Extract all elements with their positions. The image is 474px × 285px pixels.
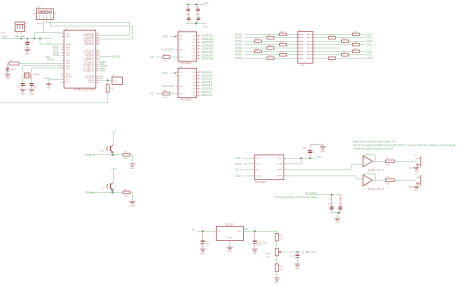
svg-text:FE06: FE06 — [37, 24, 43, 26]
svg-text:AGND: AGND — [45, 77, 52, 80]
svg-text:OE: OE — [150, 92, 154, 95]
svg-text:GND: GND — [5, 78, 10, 80]
wire 3.3V rail — [1, 38, 53, 40]
wire SCK — [242, 157, 253, 159]
wire R6 to ground — [130, 192, 132, 201]
svg-text:LDAC: LDAC — [256, 175, 262, 178]
svg-text:GND: GND — [200, 253, 205, 255]
svg-text:You hear something to before t: You hear something to before the voltage — [274, 196, 318, 199]
wire CS — [240, 169, 253, 171]
ground below C10 — [200, 249, 206, 255]
wire C7 to ground — [310, 144, 323, 146]
svg-text:the pin 4 needs is pulled up t: the pin 4 needs is pulled up to a/c 5V (… — [353, 143, 456, 147]
node junction output — [254, 230, 256, 232]
wire reset to left edge — [0, 94, 108, 103]
ground below regulator — [227, 247, 233, 253]
wire MOSI — [243, 163, 253, 165]
wire row8b — [274, 57, 296, 59]
ground stub below rail — [195, 23, 197, 25]
ATmega left pin names (inside) — [66, 33, 73, 84]
wire AGND from IC — [49, 80, 62, 84]
wire 5V audio net — [305, 194, 342, 196]
svg-text:16P: 16P — [301, 65, 305, 67]
svg-text:GND: GND — [414, 190, 419, 192]
resistor R5 — [123, 152, 130, 160]
svg-text:16V: 16V — [263, 242, 267, 244]
svg-text:100n: 100n — [185, 14, 191, 16]
node junction VDD b — [309, 157, 311, 159]
wire out row6 — [315, 50, 352, 52]
wire out row4 — [315, 44, 352, 46]
capacitor C9 — [338, 195, 344, 213]
svg-text:SCK: SCK — [235, 157, 240, 160]
resistor R16 — [280, 52, 287, 56]
wire U2B feedback loop — [363, 174, 375, 180]
wire R5 to ground — [130, 155, 132, 164]
svg-text:CLK/LATCH: CLK/LATCH — [161, 85, 174, 88]
svg-text:GND: GND — [66, 36, 71, 38]
svg-text:A different buffer should be u: A different buffer should be used? — [353, 146, 394, 150]
svg-text:GND: GND — [227, 251, 232, 253]
ground below LED1 — [5, 74, 11, 80]
svg-text:GND: GND — [20, 93, 25, 95]
svg-text:GND GND: GND GND — [15, 36, 26, 38]
capacitor C2 — [16, 83, 24, 89]
node junction on rail — [39, 38, 41, 40]
node junction reset — [107, 79, 109, 81]
ground below C12 — [294, 264, 300, 270]
svg-text:SDI: SDI — [256, 164, 260, 166]
node junction on rail — [33, 38, 35, 40]
svg-text:RST: RST — [114, 81, 119, 83]
ground below divider — [274, 278, 280, 284]
svg-text:ADC7: ADC7 — [88, 81, 94, 84]
svg-text:GND: GND — [46, 88, 51, 90]
wire VDD row — [286, 157, 316, 159]
svg-text:VCC: VCC — [204, 2, 209, 5]
wire out row7b + label — [349, 54, 373, 57]
ground below R5 — [129, 164, 135, 170]
SECTION: power supply bottom-center — [192, 223, 317, 284]
resistor R3 at IC2 OE — [150, 54, 176, 63]
svg-text:GND: GND — [203, 26, 208, 28]
op-amp U2A buffer — [363, 154, 385, 172]
svg-text:100n: 100n — [195, 14, 201, 16]
svg-text:74HC595N: 74HC595N — [179, 62, 191, 65]
svg-text:LEDCOL8: LEDCOL8 — [201, 94, 213, 97]
resistor R13 — [280, 42, 287, 46]
wire joining C8 C9 to ground — [332, 212, 341, 214]
wire regulator ground pin — [229, 241, 231, 247]
capacitor C6 — [195, 4, 201, 17]
op-amp U2B buffer — [363, 173, 385, 191]
resistor R7 — [385, 158, 394, 166]
IC3 right pins with LED net labels — [197, 71, 213, 97]
connector SV1 (ISP header) — [34, 7, 56, 20]
resistor R14 — [267, 45, 274, 49]
IC2 left pins — [176, 36, 178, 57]
svg-text:GND: GND — [274, 282, 279, 284]
wire out row1 — [315, 33, 352, 35]
svg-text:A_REF_OUT: A_REF_OUT — [302, 251, 317, 254]
node junction wiper — [297, 251, 299, 253]
resistor R25 — [342, 52, 349, 56]
svg-text:MIDI_IN: MIDI_IN — [111, 56, 120, 59]
svg-text:OUTA: OUTA — [276, 163, 282, 166]
ATmega right pins — [96, 34, 100, 83]
wire row7b — [287, 54, 296, 56]
wire out row6b + label — [360, 50, 373, 53]
SECTION: DAC and buffers center-right — [235, 140, 456, 225]
wire row4b — [287, 44, 296, 46]
wire ISP MOSI to rail — [34, 19, 43, 38]
connector JP1 inner pin leads — [300, 34, 310, 58]
svg-text:PD6(AIN0): PD6(AIN0) — [84, 58, 94, 61]
resistor R6 — [123, 189, 130, 197]
svg-text:VCC: VCC — [111, 168, 116, 171]
svg-text:CS: CS — [235, 169, 239, 172]
resistor R17 — [267, 55, 274, 59]
svg-text:MOSI2: MOSI2 — [47, 58, 55, 61]
resistor R11 (divider bottom) — [275, 264, 284, 272]
svg-text:LDAC: LDAC — [235, 175, 242, 178]
svg-text:PWM_A: PWM_A — [85, 154, 94, 157]
svg-text:100n: 100n — [24, 47, 30, 49]
wire to ground divider — [276, 271, 278, 277]
svg-text:100n: 100n — [302, 148, 308, 150]
svg-text:DATA: DATA — [162, 72, 168, 75]
wire PWM A — [90, 154, 123, 156]
svg-text:COL8: COL8 — [366, 57, 373, 60]
wire LDAC — [244, 175, 253, 177]
wire out row1b + label — [360, 33, 373, 36]
transistor Q4 — [101, 182, 114, 192]
op-amp IC4 DAC box — [255, 155, 284, 184]
svg-text:GND: GND — [29, 93, 34, 95]
svg-text:LEDROW8: LEDROW8 — [201, 58, 213, 61]
wire AVDD joins VDD — [286, 158, 301, 164]
wire row2b — [274, 37, 296, 39]
resistor R4 at IC3 OE — [150, 90, 176, 99]
capacitor C8 — [328, 195, 334, 213]
ground at J3 — [414, 186, 420, 192]
capacitor C7b — [197, 18, 201, 24]
wire out row3 — [315, 40, 341, 42]
node junction VDD a — [300, 157, 302, 159]
svg-text:100n: 100n — [338, 204, 344, 206]
wire out row4b + label — [360, 44, 373, 47]
svg-text:5V_AUDIO: 5V_AUDIO — [305, 192, 317, 195]
capacitor C11 (output electrolytic) — [253, 231, 267, 248]
wire row2 — [245, 37, 268, 39]
ground at C7 — [320, 147, 326, 153]
wire out row8b + label — [336, 57, 373, 60]
resistor R10 — [280, 31, 287, 35]
wire divider bottom — [276, 256, 278, 264]
wire row7 — [245, 54, 280, 56]
switch S1 box — [112, 75, 123, 84]
resistor R22 — [342, 38, 349, 42]
wire out row7 — [315, 54, 341, 56]
resistor R15 — [255, 48, 262, 52]
svg-text:AGND: AGND — [66, 76, 73, 79]
capacitor C1 — [24, 39, 33, 49]
node junction 5V audio — [331, 194, 333, 196]
connector J3 audio jack B — [409, 174, 421, 189]
voltage regulator IC5 78L05 box — [216, 223, 243, 240]
wire rail to AVCC pin — [40, 39, 61, 45]
svg-text:LED1: LED1 — [11, 69, 17, 71]
wire ISP MISO to IC right — [47, 19, 130, 35]
svg-text:PWM_B: PWM_B — [85, 191, 94, 194]
crystal Q2 — [23, 65, 62, 82]
resistor R24 — [353, 48, 360, 52]
svg-text:AUDIO_OUT_B: AUDIO_OUT_B — [368, 188, 385, 191]
wire DAC OUTA to buffer 1 — [286, 164, 363, 170]
capacitor C5 — [187, 18, 191, 24]
connector JP1 box — [298, 30, 313, 63]
capacitor C4 — [185, 4, 191, 17]
svg-text:+3V3: +3V3 — [1, 36, 7, 39]
svg-text:100n: 100n — [328, 204, 334, 206]
svg-text:GND: GND — [130, 206, 135, 208]
node junction on rail — [20, 38, 22, 40]
wire 5V output — [243, 230, 276, 232]
svg-text:PC3(ADC3): PC3(ADC3) — [83, 70, 94, 73]
svg-text:SH: SH — [180, 86, 183, 88]
wire row4 — [245, 44, 280, 46]
ground below C2 — [20, 89, 26, 95]
op-amp IC2 74HC595 box — [178, 30, 196, 65]
SECTION: resistor bus / connector top-right — [235, 30, 373, 67]
wire row5 — [245, 47, 268, 49]
node junction top rail a — [187, 4, 189, 6]
resistor R9 (divider top) — [275, 233, 284, 241]
SECTION: transistor drivers bottom-left — [85, 130, 135, 207]
svg-text:SCK: SCK — [256, 158, 261, 160]
wire row3b — [262, 40, 296, 42]
wire wiper output — [282, 251, 302, 253]
node junction bottom rail — [195, 22, 197, 24]
ATmega left pins — [61, 34, 64, 83]
svg-text:AUDIO_OUT_A: AUDIO_OUT_A — [368, 169, 385, 172]
connector J2 audio jack A — [409, 155, 421, 170]
wire divider middle — [276, 241, 278, 248]
capacitor C10 (input electrolytic) — [201, 231, 211, 248]
IC2 right pins with LED net labels — [197, 34, 214, 60]
ground below R6 — [129, 202, 135, 208]
svg-text:16MHz: 16MHz — [33, 74, 40, 76]
node junction below caps — [338, 212, 340, 214]
svg-text:What this is a super slick buf: What this is a super slick buffer, eh? — [353, 140, 396, 144]
wire to divider — [276, 231, 278, 233]
wire row3 — [245, 40, 255, 42]
connector JP1 right pins — [311, 34, 315, 58]
svg-text:AVCC: AVCC — [66, 73, 72, 76]
svg-text:MCP4922: MCP4922 — [255, 181, 266, 184]
ground below C8 C9 — [334, 218, 340, 224]
svg-text:VCC: VCC — [317, 156, 322, 159]
ground below C1 — [24, 50, 30, 56]
wire out row2b + label — [336, 37, 373, 40]
op-amp IC3 74HC595 box (second) — [178, 67, 196, 102]
op-amp U1 ATmega168 IC box — [64, 28, 96, 91]
wire DAC OUTB to buffer 2 — [286, 176, 363, 179]
wire row6 — [245, 50, 255, 52]
svg-text:GND: GND — [335, 222, 340, 224]
resistor R26 — [329, 57, 336, 63]
node junction Q3 emitter — [112, 154, 114, 156]
node junction input — [202, 230, 204, 232]
node junction on rail — [27, 38, 29, 40]
svg-text:VCC: VCC — [111, 130, 116, 133]
ground at J2 — [414, 167, 420, 173]
svg-text:78L05Z: 78L05Z — [225, 223, 234, 226]
resonator Q1 — [15, 22, 29, 34]
resistor R12 — [255, 38, 262, 42]
svg-text:OUT: OUT — [237, 231, 242, 233]
svg-text:OUTB: OUTB — [276, 170, 282, 172]
wire row8 — [245, 57, 268, 59]
wire 9V input — [197, 230, 217, 232]
ATmega right pin names (inside) — [83, 33, 95, 84]
wire PWM B — [90, 191, 123, 193]
svg-text:MOSI: MOSI — [235, 163, 241, 166]
svg-text:GND: GND — [295, 268, 300, 270]
svg-text:DATA: DATA — [162, 35, 168, 38]
wire supply to Q4 — [112, 171, 114, 183]
resistor R21 — [329, 35, 336, 39]
wire DATA to IC3 pin — [171, 72, 175, 74]
node junction Q4 emitter — [112, 191, 114, 193]
svg-text:COL4: COL4 — [366, 44, 373, 47]
resistor R20 — [353, 31, 360, 35]
svg-text:SH: SH — [180, 50, 183, 52]
SECTION: microcontroller top-left — [0, 7, 133, 103]
wire out row8 — [315, 57, 328, 59]
IC3 inside pin names — [180, 72, 184, 95]
svg-text:9V: 9V — [192, 228, 195, 231]
svg-text:VCC: VCC — [47, 43, 52, 45]
svg-text:+5V: +5V — [244, 228, 249, 231]
svg-text:GND: GND — [25, 54, 30, 56]
wire U2A output — [373, 160, 386, 162]
wire DATA to IC2 pin — [171, 36, 175, 38]
svg-text:GND: GND — [227, 237, 232, 239]
wire out row2 — [315, 37, 328, 39]
resistor R11 — [267, 35, 274, 39]
ground below C11 — [252, 249, 258, 255]
svg-text:GND: GND — [320, 151, 325, 153]
svg-text:VDD: VDD — [278, 158, 283, 160]
IC4 right pins — [284, 158, 286, 176]
svg-text:VCC: VCC — [66, 33, 71, 35]
capacitor C12 — [290, 252, 300, 264]
resistor R8 — [385, 177, 394, 185]
svg-text:GND: GND — [130, 168, 135, 170]
wire rail to VCC pin — [43, 33, 61, 34]
SECTION: shift registers top-middle — [150, 2, 214, 102]
svg-text:AREF: AREF — [66, 43, 72, 46]
IC4 inside pin names — [256, 158, 262, 178]
transistor Q3 — [101, 145, 114, 155]
ground below C3 — [29, 89, 35, 95]
resistor R2 (reset pullup) — [106, 80, 114, 94]
svg-text:VREF: VREF — [276, 176, 282, 178]
svg-text:ROW8: ROW8 — [235, 57, 243, 60]
resistor R23 — [353, 42, 360, 46]
wire row1 — [245, 33, 280, 35]
IC3 left pins — [176, 72, 178, 93]
annotation text top right — [353, 140, 456, 151]
resistor R1 (LED) — [8, 60, 62, 65]
wire out row5 — [315, 47, 340, 49]
wire U2B output — [373, 179, 386, 181]
wire row1b — [287, 33, 296, 35]
connector JP1 left pins — [296, 34, 300, 58]
wire out row3b + label — [349, 40, 373, 43]
wire TX out with label — [100, 56, 121, 59]
IC4 left pins — [253, 158, 255, 176]
potentiometer R10 — [266, 248, 282, 258]
svg-text:74HC595N: 74HC595N — [179, 99, 191, 102]
capacitor C3 — [30, 83, 38, 89]
net labels at ATmega right pins — [100, 61, 108, 80]
svg-text:OE2: OE2 — [100, 70, 105, 73]
svg-text:ATMEGA168-20PU: ATMEGA168-20PU — [74, 88, 97, 92]
svg-text:GND: GND — [252, 253, 257, 255]
LED LED1 — [6, 64, 17, 74]
wire U2A feedback loop — [363, 155, 375, 161]
wire reset net — [100, 79, 112, 81]
svg-text:PD0(RXD): PD0(RXD) — [84, 44, 94, 46]
svg-text:BTN2: BTN2 — [53, 54, 60, 57]
wire supply to Q3 — [112, 133, 114, 145]
wire bottom rail below caps — [185, 22, 207, 24]
wire VCC rail above caps — [186, 3, 207, 5]
wire ISP SCK to IC right — [50, 19, 132, 39]
node junction top rail b — [195, 4, 197, 6]
wire row5b — [274, 47, 296, 49]
ground AGND — [46, 84, 52, 90]
wire R7 to jack — [394, 160, 416, 162]
IC2 inside pin names — [180, 36, 184, 59]
svg-text:CLK/LATCH: CLK/LATCH — [161, 49, 174, 52]
svg-text:OE: OE — [150, 56, 154, 59]
capacitor C7 — [302, 144, 312, 158]
wire R8 to jack — [394, 179, 416, 181]
wire row6b — [262, 50, 296, 52]
